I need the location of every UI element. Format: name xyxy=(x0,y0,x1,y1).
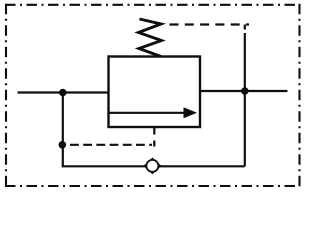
flow path arrow inside valve xyxy=(109,107,197,118)
spring (zigzag on top of valve) xyxy=(139,19,162,57)
node: junction dot right on outlet xyxy=(241,87,249,95)
node: junction dot left on inlet xyxy=(59,89,67,97)
enclosure boundary: left edge (dash-dot) xyxy=(5,4,7,187)
valve body U1 (square envelope) xyxy=(109,57,201,128)
wire: right vertical pilot/bypass branch xyxy=(244,25,246,167)
wire: outlet line (right port) xyxy=(200,90,288,92)
pilot/drain line (dashed) below valve xyxy=(153,127,155,147)
wire: inlet line (left port) xyxy=(18,91,109,93)
enclosure boundary: top edge (dash-dot) xyxy=(5,4,300,6)
wire: left vertical branch xyxy=(62,93,64,167)
wire: bottom bypass line xyxy=(62,165,245,167)
enclosure boundary: bottom edge (dash-dot) xyxy=(5,185,300,187)
node: junction dot left lower xyxy=(59,141,67,149)
pilot line (dashed horizontal) to left branch xyxy=(70,144,152,146)
pilot line (dashed) from spring to right branch xyxy=(170,23,250,25)
enclosure boundary: right edge (dash-dot) xyxy=(298,4,300,187)
orifice/restrictor symbol (circle) in bypass line xyxy=(143,158,161,175)
